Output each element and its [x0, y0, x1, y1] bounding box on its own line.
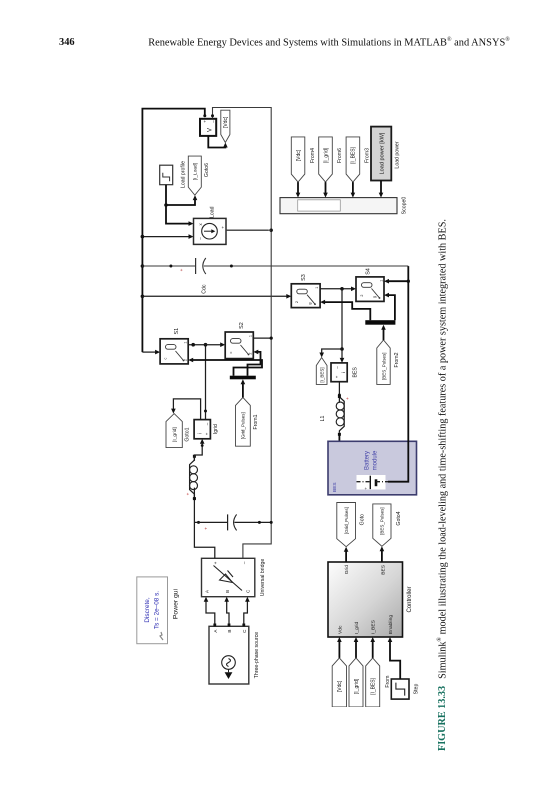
svg-text:C: C — [242, 629, 247, 633]
svg-text:c: c — [164, 357, 168, 359]
svg-text:Universal bridge: Universal bridge — [260, 559, 266, 597]
svg-text:B: B — [227, 630, 232, 633]
wire node to BES measurement — [341, 289, 343, 360]
wire BES to L1 — [338, 382, 340, 403]
svg-text:+: + — [221, 226, 226, 229]
wire coil to Igrid — [194, 442, 202, 461]
wire rail to load — [142, 236, 190, 238]
svg-text:Load power: Load power — [395, 141, 401, 168]
svg-text:Power gui: Power gui — [173, 588, 180, 619]
wire step to enabling — [390, 641, 400, 680]
wire From2 to gate mux — [383, 328, 385, 340]
svg-text:2: 2 — [360, 294, 364, 296]
svg-text:2: 2 — [295, 301, 299, 303]
svg-text:+: + — [205, 432, 210, 435]
universal bridge block — [202, 558, 255, 596]
svg-text:Load profile: Load profile — [181, 161, 187, 188]
wire S3.1 to S4.2 — [320, 288, 352, 290]
svg-text:[I_grid]: [I_grid] — [323, 147, 329, 163]
svg-text:Goto: Goto — [360, 514, 366, 525]
svg-text:From3: From3 — [364, 148, 370, 163]
svg-text:+: + — [179, 268, 184, 271]
svg-text:[I_grid]: [I_grid] — [172, 427, 178, 442]
svg-text:x: x — [198, 223, 203, 226]
wire controller BES out — [381, 550, 383, 562]
svg-text:[BES_Pulses]: [BES_Pulses] — [381, 352, 386, 380]
svg-text:Goto4: Goto4 — [396, 511, 402, 525]
capacitor Cdc — [142, 265, 195, 267]
wire Igrid to S1-S2 node — [205, 345, 207, 420]
wire bridge+ to filter node — [194, 488, 214, 559]
goto tag Vdc — [221, 110, 230, 142]
wire From6 to scope — [325, 182, 327, 194]
svg-text:[I_grid]: [I_grid] — [354, 678, 360, 694]
svg-text:A: A — [204, 589, 209, 593]
wire source B to bridge B — [227, 600, 229, 626]
from tag Grid_Pulses From1 — [236, 397, 251, 446]
goto tag BES_Pulses Goto4 — [373, 504, 391, 546]
svg-text:Enabling: Enabling — [388, 615, 394, 634]
svg-text:1: 1 — [379, 280, 383, 282]
switch S1 — [160, 339, 188, 364]
from tag Vdc input — [332, 658, 346, 707]
svg-text:2: 2 — [184, 359, 188, 361]
svg-text:S1: S1 — [174, 328, 180, 335]
svg-text:S2: S2 — [239, 322, 245, 329]
svg-text:–: – — [243, 561, 248, 564]
bridge thyristor symbol — [214, 566, 243, 591]
wire source C to bridge C — [244, 600, 248, 626]
wire S1.1 to S2.c — [188, 344, 222, 346]
from tag BES_Pulses From2 — [377, 340, 390, 384]
wire battery to dc bus — [388, 266, 408, 482]
svg-text:1: 1 — [248, 335, 252, 337]
wire gate mux to S4 gate — [388, 295, 395, 320]
goto tag I_Load Goto6 — [188, 156, 201, 195]
svg-text:module: module — [373, 450, 379, 470]
wire From4 to scope — [297, 182, 299, 194]
svg-text:A: A — [213, 629, 218, 633]
powergui block — [137, 577, 168, 644]
inductor L1 coil — [339, 395, 344, 433]
svg-text:Goto1: Goto1 — [184, 427, 190, 441]
wire branch to I_BES goto — [322, 349, 342, 354]
wire gate mux to S1 gate — [193, 360, 262, 376]
svg-text:Ts = 2e–08 s.: Ts = 2e–08 s. — [154, 591, 161, 629]
wire I_BES to controller — [372, 641, 374, 658]
switch S4 — [356, 277, 384, 302]
wire Igrid i-output to Goto1 — [173, 399, 200, 420]
svg-text:g: g — [373, 296, 377, 298]
svg-text:+: + — [214, 561, 219, 564]
battery symbol — [357, 481, 371, 483]
wire branch to S4.1 — [388, 280, 409, 282]
svg-text:–: – — [335, 366, 340, 369]
svg-text:c: c — [229, 351, 233, 353]
load profile block — [160, 165, 173, 185]
svg-text:From1: From1 — [253, 414, 259, 429]
controller subsystem — [328, 562, 403, 637]
wire L1 to battery module — [339, 433, 356, 482]
battery module subsystem — [328, 441, 417, 495]
svg-text:BES: BES — [332, 482, 338, 492]
wire load to dc- rail — [226, 229, 271, 231]
wire branch to Goto6 — [166, 199, 195, 205]
svg-text:C: C — [246, 589, 251, 593]
svg-text:Scope0: Scope0 — [402, 197, 408, 215]
svg-text:Controller: Controller — [407, 586, 413, 612]
svg-text:+: + — [345, 397, 350, 400]
gate mux bar S3 S4 — [365, 320, 395, 325]
svg-text:–: – — [211, 120, 216, 123]
svg-text:Three-phase source: Three-phase source — [254, 632, 260, 679]
svg-text:[Grid_Pulses]: [Grid_Pulses] — [344, 507, 349, 534]
svg-text:V: V — [208, 128, 214, 132]
wire gate mux to S2 gate — [248, 352, 261, 376]
wire I_grid to controller — [355, 641, 357, 658]
from tag I_BES input — [366, 658, 380, 707]
svg-text:–: – — [205, 422, 210, 425]
scope0 block — [280, 198, 397, 214]
current measurement Igrid — [194, 420, 210, 439]
svg-text:From4: From4 — [310, 148, 316, 163]
svg-text:+: + — [186, 492, 191, 495]
node filter cap top junction — [197, 521, 200, 524]
svg-text:Battery: Battery — [365, 451, 371, 470]
from tag I_grid input — [349, 658, 363, 707]
capacitor C filter — [194, 521, 227, 523]
from tag Vdc From4 — [291, 137, 305, 182]
switch S3 — [291, 284, 320, 308]
svg-text:[Vdc]: [Vdc] — [296, 149, 302, 161]
svg-text:1: 1 — [184, 341, 188, 343]
svg-text:S4: S4 — [366, 268, 372, 275]
svg-text:[Vdc]: [Vdc] — [337, 680, 343, 692]
inductor Lgrid coil — [190, 458, 195, 497]
wire controller Grid out — [345, 550, 347, 562]
svg-text:[I_BES]: [I_BES] — [371, 677, 377, 695]
svg-text:+: + — [204, 527, 209, 530]
wire From3 to scope — [352, 182, 354, 194]
wire rail to load input 2 — [141, 235, 144, 238]
svg-text:Cdc: Cdc — [202, 284, 208, 294]
svg-text:–: – — [198, 237, 203, 240]
wire V- sense from load node — [226, 229, 268, 231]
svg-text:Grid: Grid — [344, 565, 350, 575]
svg-text:+: + — [202, 120, 207, 123]
svg-text:I_BES: I_BES — [371, 619, 377, 634]
svg-text:2: 2 — [249, 352, 253, 354]
svg-text:i: i — [341, 372, 346, 373]
svg-text:1: 1 — [315, 287, 319, 289]
svg-text:+: + — [364, 487, 369, 490]
from tag I_BES From3 — [346, 137, 360, 182]
svg-text:i: i — [198, 433, 204, 434]
goto tag I_grid Goto1 — [166, 414, 182, 448]
wire gate mux to S3 gate — [324, 302, 370, 320]
svg-text:From2: From2 — [394, 352, 400, 367]
svg-text:Load power [kW]: Load power [kW] — [380, 132, 386, 174]
svg-text:g: g — [308, 302, 312, 304]
voltage measurement V — [200, 119, 216, 136]
svg-text:Discrete,: Discrete, — [144, 597, 151, 622]
svg-text:[BES_Pulses]: [BES_Pulses] — [380, 507, 385, 535]
svg-text:BES: BES — [352, 367, 358, 378]
switch S2 — [225, 332, 253, 359]
dc+ top rail — [142, 109, 204, 353]
svg-text:L1: L1 — [320, 416, 326, 422]
svg-text:Step: Step — [414, 684, 420, 695]
svg-text:From: From — [385, 676, 391, 688]
wire load power to scope — [380, 181, 382, 195]
svg-text:[Vdc]: [Vdc] — [223, 116, 229, 128]
dc- return rail — [213, 108, 272, 559]
svg-text:[I_BES]: [I_BES] — [319, 367, 324, 382]
wire load profile to load — [166, 185, 190, 224]
svg-text:Goto6: Goto6 — [204, 163, 210, 177]
svg-text:[Grid_Pulses]: [Grid_Pulses] — [241, 412, 246, 439]
svg-text:Vdc: Vdc — [337, 625, 343, 634]
gate mux bar S1 S2 — [230, 376, 256, 380]
three-phase source block — [209, 626, 249, 684]
current measurement BES — [331, 363, 347, 382]
wire Vdc to controller — [338, 641, 340, 658]
svg-text:S3: S3 — [301, 274, 307, 281]
svg-text:[I_BES]: [I_BES] — [351, 146, 357, 164]
svg-text:Load: Load — [210, 206, 216, 218]
svg-text:From6: From6 — [337, 148, 343, 163]
svg-text:B: B — [225, 590, 230, 593]
svg-text:[I_Load]: [I_Load] — [193, 163, 199, 180]
wire rail to S3 — [142, 295, 287, 297]
svg-text:+: + — [335, 375, 340, 378]
source symbol (AC circle + ground) — [222, 656, 236, 670]
wire rail to S1 — [142, 351, 156, 353]
load block (controlled current source) — [194, 218, 227, 244]
wire S2.1 to dc- rail — [253, 337, 271, 339]
svg-text:BES: BES — [381, 564, 387, 575]
wire source A to bridge A — [206, 600, 215, 626]
wire V output to Vdc goto — [208, 136, 225, 148]
load power display block — [371, 127, 391, 181]
step block — [391, 679, 409, 699]
wire From1 to gate mux — [242, 383, 244, 398]
goto tag I_BES — [316, 358, 327, 385]
svg-text:Igrid: Igrid — [213, 424, 219, 434]
svg-text:I_grid: I_grid — [354, 621, 360, 634]
from tag I_grid From6 — [319, 137, 333, 182]
goto tag Grid_Pulses — [337, 503, 356, 547]
